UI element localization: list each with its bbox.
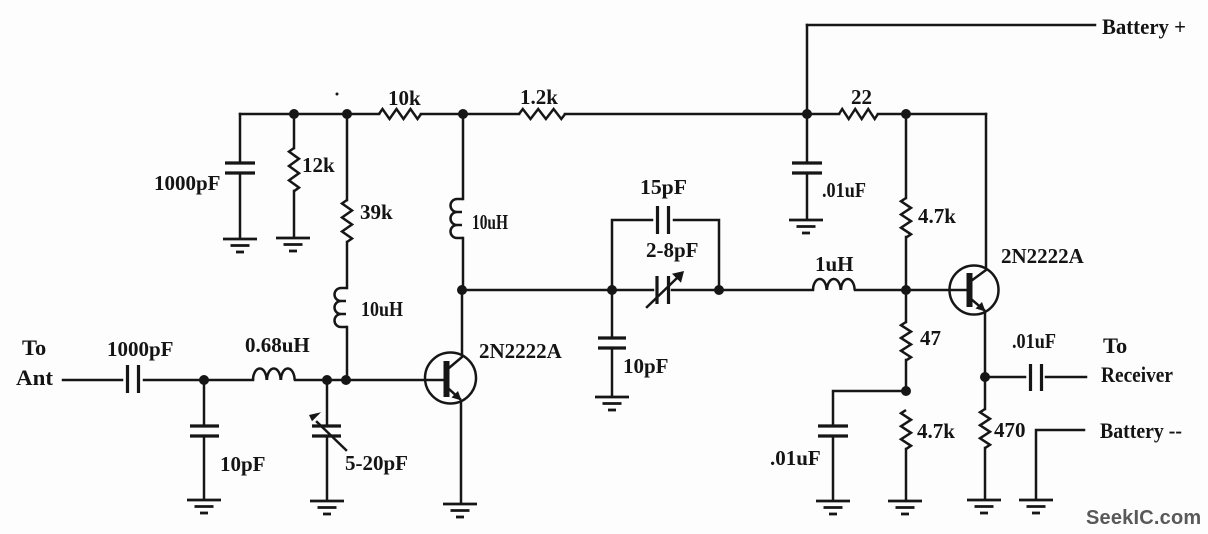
svg-text:1000pF: 1000pF bbox=[154, 171, 221, 195]
node junction dot 10uH chain bbox=[341, 375, 351, 385]
svg-text:Battery --: Battery -- bbox=[1100, 418, 1182, 443]
wire battery minus stub bbox=[1036, 430, 1084, 499]
wire collector drop Q2 bbox=[971, 114, 986, 281]
transistor Q2 2N2222A bbox=[950, 266, 999, 315]
svg-text:47: 47 bbox=[920, 326, 941, 350]
wire top rail segment 1 bbox=[240, 113, 379, 116]
node junction dot collector/mid rail bbox=[457, 285, 467, 295]
transistor Q1 2N2222A bbox=[425, 353, 476, 404]
node junction dot 47/.01uF bbox=[901, 386, 911, 396]
wire top rail segment 4 bbox=[878, 113, 986, 116]
resistor 22 bbox=[839, 109, 878, 119]
ground 5-20pF bbox=[310, 501, 344, 514]
wire mid rail right of box bbox=[672, 289, 813, 292]
svg-text:5-20pF: 5-20pF bbox=[345, 451, 408, 475]
svg-text:470: 470 bbox=[994, 418, 1026, 442]
capacitor .01uF (top) bbox=[806, 114, 809, 161]
resistor 4.7k upper bbox=[905, 114, 908, 198]
resistor 10k bbox=[379, 109, 421, 119]
capacitor .01uF receiver bbox=[985, 376, 1025, 379]
wire 15pF box right bbox=[674, 220, 719, 290]
svg-text:.01uF: .01uF bbox=[770, 446, 821, 470]
ground .01uF lower-left bbox=[816, 501, 850, 514]
svg-text:1.2k: 1.2k bbox=[520, 85, 558, 109]
inductor 10uH (left chain) bbox=[335, 288, 348, 327]
speck noise dot bbox=[336, 93, 339, 96]
capacitor 10pF ant bbox=[203, 380, 206, 424]
node junction dot 807 rail bbox=[802, 109, 812, 119]
wire top rail segment 3 bbox=[565, 113, 839, 116]
node junction dot 10uH/rail bbox=[458, 109, 468, 119]
node junction dot mid/4.7k-47 bbox=[901, 285, 911, 295]
svg-text:Receiver: Receiver bbox=[1101, 362, 1173, 387]
wire mid rail left bbox=[462, 289, 653, 292]
resistor 47 bbox=[905, 290, 908, 322]
wire 15pF box left bbox=[612, 220, 652, 290]
ground 470 bbox=[967, 500, 1001, 513]
svg-text:To: To bbox=[22, 335, 46, 360]
svg-text:To: To bbox=[1103, 333, 1127, 358]
ground .01uF top bbox=[789, 220, 823, 233]
ground battery minus bbox=[1019, 500, 1053, 513]
capacitor .01uF lower-left bbox=[833, 391, 906, 424]
resistor 470 bbox=[984, 377, 987, 409]
svg-text:Battery +: Battery + bbox=[1102, 14, 1186, 39]
wire top rail segment 2 bbox=[421, 113, 519, 116]
ground 10pF mid bbox=[595, 397, 629, 410]
svg-text:2N2222A: 2N2222A bbox=[1001, 244, 1085, 268]
wire mid rail to Q2 base bbox=[855, 289, 966, 292]
capacitor 1000pF top-left bbox=[239, 114, 242, 162]
resistor 39k bbox=[346, 114, 349, 200]
ground 12k bbox=[276, 238, 310, 251]
svg-text:2N2222A: 2N2222A bbox=[479, 339, 563, 363]
node junction dot box left bbox=[607, 285, 617, 295]
node junction dot 10pF ant bbox=[199, 375, 209, 385]
node junction dot trimmer bbox=[322, 375, 332, 385]
svg-text:10uH: 10uH bbox=[472, 210, 508, 234]
svg-text:10uH: 10uH bbox=[361, 297, 403, 321]
svg-text:10pF: 10pF bbox=[623, 354, 669, 378]
ground 10pF ant bbox=[187, 500, 221, 513]
capacitor 10pF mid bbox=[611, 290, 614, 336]
svg-text:10k: 10k bbox=[388, 86, 421, 110]
svg-text:1000pF: 1000pF bbox=[107, 337, 174, 361]
wire ant to 10pF node bbox=[144, 379, 253, 382]
capacitor 1000pF antenna bbox=[128, 365, 139, 393]
capacitor 5-20pF trimmer bbox=[326, 380, 329, 424]
wire 0.68uH to base bbox=[295, 379, 443, 382]
capacitor 2-8pF trimmer bbox=[657, 276, 669, 304]
inductor 1uH bbox=[813, 279, 855, 290]
svg-text:4.7k: 4.7k bbox=[918, 204, 956, 228]
node junction dot emitter Q2 bbox=[980, 372, 990, 382]
wire battery+ vertical drop bbox=[806, 25, 809, 114]
node junction dot 39k/rail bbox=[342, 109, 352, 119]
svg-text:.01uF: .01uF bbox=[822, 178, 866, 202]
svg-text:2-8pF: 2-8pF bbox=[646, 238, 699, 262]
trimmer arrow 5-20pF bbox=[317, 422, 346, 450]
ground 4.7k lower bbox=[888, 501, 922, 514]
svg-text:Ant: Ant bbox=[16, 365, 54, 390]
svg-text:.01uF: .01uF bbox=[1012, 329, 1056, 353]
inductor 10uH (collector chain) bbox=[462, 114, 465, 199]
svg-text:39k: 39k bbox=[360, 200, 393, 224]
trimmer arrow 2-8pF bbox=[647, 279, 676, 307]
svg-text:0.68uH: 0.68uH bbox=[245, 333, 310, 357]
svg-text:22: 22 bbox=[851, 85, 872, 109]
svg-text:15pF: 15pF bbox=[640, 175, 687, 199]
ground 1000pF top-left bbox=[223, 239, 257, 252]
svg-text:12k: 12k bbox=[302, 153, 335, 177]
ground Q1 emitter bbox=[443, 504, 477, 517]
wire battery+ rail bbox=[807, 24, 1095, 27]
svg-text:1uH: 1uH bbox=[815, 252, 854, 276]
capacitor 15pF bbox=[658, 206, 669, 234]
node junction dot 906 rail bbox=[901, 109, 911, 119]
inductor 0.68uH bbox=[253, 369, 295, 381]
resistor 1.2k bbox=[519, 109, 565, 119]
node junction dot 12k/rail bbox=[289, 109, 299, 119]
svg-text:10pF: 10pF bbox=[220, 452, 266, 476]
resistor 4.7k lower bbox=[901, 410, 911, 449]
svg-text:SeekIC.com: SeekIC.com bbox=[1086, 507, 1201, 529]
wire antenna lead bbox=[63, 379, 122, 382]
resistor 12k bbox=[293, 114, 296, 148]
svg-text:4.7k: 4.7k bbox=[917, 419, 955, 443]
node junction dot box right bbox=[714, 285, 724, 295]
